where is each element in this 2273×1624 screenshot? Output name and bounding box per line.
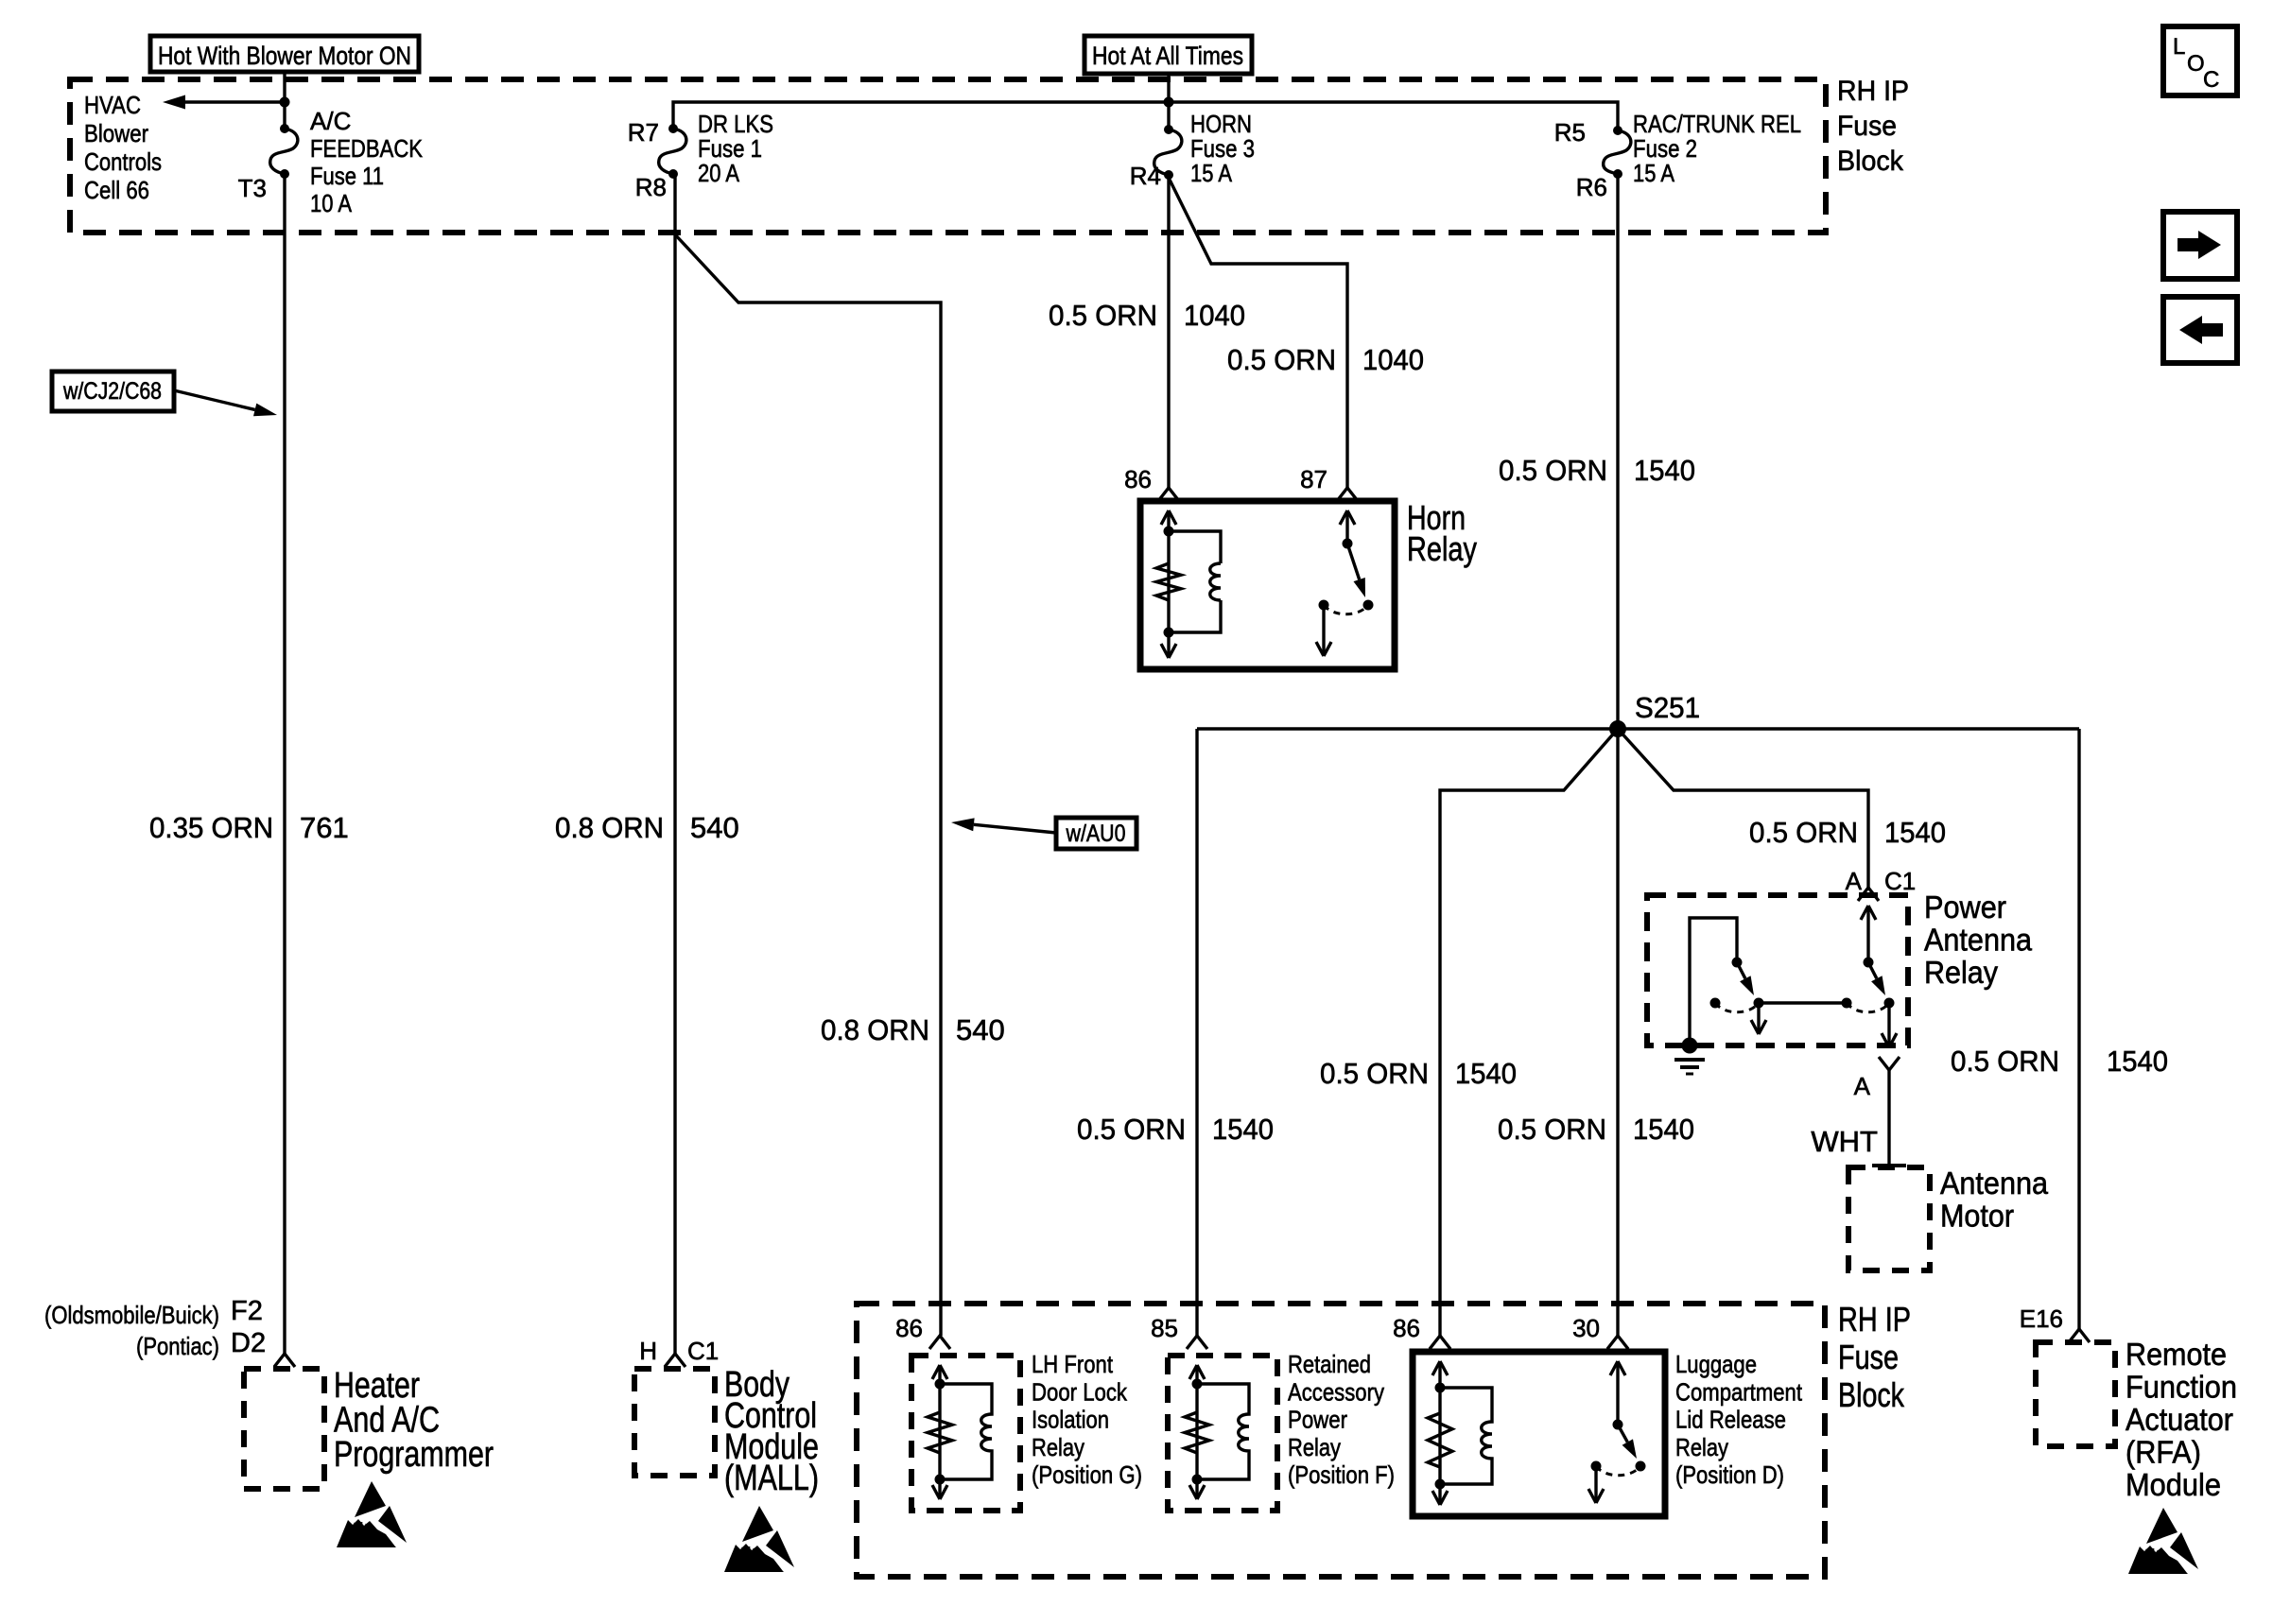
wire 0.5 ORN 1040 (to horn relay 86) — [1167, 178, 1170, 488]
svg-text:Blower: Blower — [84, 119, 148, 147]
svg-text:1040: 1040 — [1362, 343, 1424, 376]
svg-text:Power: Power — [1288, 1406, 1347, 1434]
connector chevron 30 (luggage relay) — [1607, 1336, 1628, 1349]
svg-text:Fuse: Fuse — [1838, 1338, 1899, 1376]
wire WHT (antenna motor) — [1887, 1070, 1890, 1164]
svg-text:D2: D2 — [231, 1328, 266, 1358]
svg-text:540: 540 — [690, 811, 739, 844]
svg-text:86: 86 — [895, 1314, 923, 1342]
connector chevron 86 (luggage relay) — [1430, 1336, 1450, 1349]
fuse F1 DR LKS (R7/R8) — [668, 124, 678, 133]
svg-text:O: O — [2187, 51, 2205, 77]
svg-text:A: A — [1854, 1072, 1871, 1100]
svg-text:20 A: 20 A — [698, 159, 740, 187]
connector chevron 86 (door lock relay) — [929, 1336, 950, 1349]
svg-text:Programmer: Programmer — [334, 1435, 494, 1475]
svg-text:Fuse 11: Fuse 11 — [310, 162, 384, 190]
svg-text:1540: 1540 — [1633, 1113, 1694, 1146]
node S251 junction dot — [1609, 720, 1626, 737]
wire 0.5 ORN 1540 (S251 to luggage relay 86) — [1440, 729, 1618, 1336]
connector chevron H/C1 — [665, 1354, 685, 1367]
arrow to HVAC Blower Controls — [185, 100, 285, 103]
svg-text:Lid Release: Lid Release — [1675, 1406, 1786, 1434]
svg-text:(RFA): (RFA) — [2126, 1435, 2201, 1470]
luggage relay switch leg (30) — [1616, 1361, 1619, 1425]
RH IP fuse block (bottom) dashed outline — [857, 1304, 1825, 1577]
wire 0.35 ORN 761 (to heater programmer) — [283, 174, 286, 1354]
reference box w/CJ2/C68 — [52, 371, 174, 411]
svg-text:Relay: Relay — [1924, 955, 1998, 990]
reference box w/AU0 — [1056, 818, 1136, 849]
junction dot on top bus — [1164, 97, 1174, 108]
svg-text:Remote: Remote — [2126, 1337, 2227, 1372]
heater and A/C programmer dashed box — [244, 1369, 324, 1489]
horn relay switch leg (87) — [1345, 510, 1348, 544]
connector chevron 85 (retained accessory relay) — [1187, 1336, 1207, 1349]
wire branch w/AU0 (0.8 ORN 540 to door lock relay) — [673, 233, 941, 1336]
svg-text:Antenna: Antenna — [1940, 1166, 2049, 1201]
wire branch 0.5 ORN 1040 (to horn relay 87) — [1169, 178, 1347, 488]
fuse F3 HORN (R4) — [1164, 125, 1173, 134]
label box: Hot At All Times — [1084, 36, 1252, 74]
svg-text:FEEDBACK: FEEDBACK — [310, 134, 424, 163]
svg-text:0.5 ORN: 0.5 ORN — [1049, 299, 1157, 332]
svg-text:A/C: A/C — [310, 107, 351, 135]
svg-text:86: 86 — [1124, 465, 1152, 493]
svg-text:Block: Block — [1837, 146, 1904, 177]
wire 0.5 ORN 1540 (to RFA module E16) — [2077, 729, 2080, 1329]
svg-text:Fuse: Fuse — [1837, 111, 1897, 142]
svg-text:C1: C1 — [687, 1337, 719, 1365]
svg-text:0.35 ORN: 0.35 ORN — [149, 811, 273, 844]
svg-text:R6: R6 — [1576, 173, 1607, 201]
svg-text:Hot With Blower Motor ON: Hot With Blower Motor ON — [158, 42, 411, 70]
svg-text:RH IP: RH IP — [1838, 1300, 1911, 1339]
svg-text:0.5 ORN: 0.5 ORN — [1749, 816, 1858, 849]
svg-text:Accessory: Accessory — [1288, 1377, 1384, 1406]
svg-text:(Position G): (Position G) — [1032, 1460, 1142, 1489]
svg-text:(Oldsmobile/Buick): (Oldsmobile/Buick) — [44, 1301, 219, 1329]
svg-text:C1: C1 — [1884, 867, 1916, 895]
retained accessory power relay dashed box — [1168, 1356, 1277, 1511]
svg-text:A: A — [1846, 867, 1863, 895]
wire: feed from Hot With Blower Motor ON — [283, 72, 286, 129]
svg-text:R5: R5 — [1554, 118, 1586, 147]
svg-text:Isolation: Isolation — [1032, 1406, 1109, 1434]
svg-text:Relay: Relay — [1675, 1433, 1728, 1461]
svg-text:L: L — [2173, 34, 2185, 60]
svg-text:0.5 ORN: 0.5 ORN — [1951, 1045, 2059, 1078]
svg-text:w/AU0: w/AU0 — [1066, 821, 1126, 847]
LOC symbol box — [2163, 26, 2237, 95]
power antenna relay dashed box — [1647, 895, 1908, 1045]
svg-text:Relay: Relay — [1407, 529, 1477, 568]
svg-text:85: 85 — [1151, 1314, 1178, 1342]
svg-text:30: 30 — [1572, 1314, 1600, 1342]
svg-text:R7: R7 — [628, 118, 659, 147]
svg-text:RH IP: RH IP — [1837, 76, 1909, 107]
svg-text:Actuator: Actuator — [2126, 1402, 2233, 1437]
svg-text:1540: 1540 — [2107, 1045, 2168, 1078]
antenna motor terminal bar — [1872, 1164, 1906, 1167]
svg-text:1040: 1040 — [1184, 299, 1245, 332]
svg-text:0.8 ORN: 0.8 ORN — [555, 811, 664, 844]
svg-text:0.5 ORN: 0.5 ORN — [1498, 1113, 1606, 1146]
door lock relay coil — [938, 1365, 941, 1479]
svg-text:Motor: Motor — [1940, 1199, 2014, 1234]
svg-text:86: 86 — [1393, 1314, 1420, 1342]
svg-text:Door Lock: Door Lock — [1032, 1377, 1128, 1406]
svg-text:(MALL): (MALL) — [724, 1459, 819, 1498]
horn relay coil leg (86) — [1167, 510, 1170, 632]
ESD warning symbol (RFA module) — [2128, 1508, 2198, 1574]
wire 0.8 ORN 540 (to BCM) — [673, 174, 676, 1354]
svg-text:15 A: 15 A — [1190, 159, 1233, 187]
ground (power antenna relay) — [1682, 1038, 1698, 1054]
svg-text:0.5 ORN: 0.5 ORN — [1320, 1057, 1429, 1090]
RH IP fuse block (top) dashed outline — [70, 79, 1826, 233]
arrow from w/AU0 to wire — [974, 824, 1056, 833]
horn relay box — [1140, 501, 1395, 669]
svg-text:HVAC: HVAC — [84, 91, 141, 119]
svg-text:87: 87 — [1300, 465, 1327, 493]
svg-text:10 A: 10 A — [310, 189, 353, 217]
svg-text:(Pontiac): (Pontiac) — [136, 1332, 219, 1360]
wire 0.5 ORN 1540 (fuse 2 to S251) — [1616, 174, 1619, 729]
svg-text:Luggage: Luggage — [1675, 1350, 1757, 1378]
svg-text:LH Front: LH Front — [1032, 1350, 1114, 1378]
power antenna relay output to antenna motor (arrow through box edge) — [1887, 1003, 1890, 1044]
svg-text:761: 761 — [300, 811, 349, 844]
svg-text:Module: Module — [2126, 1467, 2221, 1502]
svg-text:C: C — [2203, 67, 2219, 93]
svg-text:Hot At All Times: Hot At All Times — [1092, 42, 1243, 70]
svg-text:Cell 66: Cell 66 — [84, 176, 149, 204]
svg-text:F2: F2 — [231, 1296, 263, 1326]
fuse F11 A/C FEEDBACK (T3) — [280, 124, 289, 133]
connector chevron A (antenna motor side) — [1879, 1057, 1900, 1070]
svg-text:1540: 1540 — [1884, 816, 1946, 849]
svg-text:Controls: Controls — [84, 147, 162, 176]
connector chevron A/C1 — [1858, 888, 1879, 901]
svg-text:Retained: Retained — [1288, 1350, 1371, 1378]
luggage compartment lid release relay box — [1413, 1352, 1665, 1516]
svg-text:Relay: Relay — [1288, 1433, 1341, 1461]
svg-text:Function: Function — [2126, 1370, 2237, 1405]
page arrow left box — [2163, 297, 2237, 363]
power antenna relay internals — [1866, 906, 1869, 962]
svg-text:(Position D): (Position D) — [1675, 1460, 1784, 1489]
svg-text:R8: R8 — [635, 173, 667, 201]
svg-text:Power: Power — [1924, 890, 2006, 924]
connector chevron F2/D2 — [274, 1354, 295, 1367]
wire 0.5 ORN 1540 (to retained accessory relay 85) — [1195, 729, 1198, 1336]
svg-text:w/CJ2/C68: w/CJ2/C68 — [62, 378, 162, 405]
svg-text:Block: Block — [1838, 1375, 1905, 1414]
svg-text:WHT: WHT — [1811, 1125, 1878, 1158]
svg-text:Compartment: Compartment — [1675, 1377, 1803, 1406]
svg-text:15 A: 15 A — [1633, 159, 1675, 187]
retained accessory relay coil — [1195, 1365, 1198, 1479]
connector chevron E16 — [2069, 1329, 2090, 1342]
svg-text:0.5 ORN: 0.5 ORN — [1499, 454, 1607, 487]
connector chevron 87 (horn relay) — [1337, 488, 1358, 501]
arrow from w/CJ2/C68 to wire — [174, 390, 255, 409]
svg-text:1540: 1540 — [1455, 1057, 1517, 1090]
svg-text:(Position F): (Position F) — [1288, 1460, 1395, 1489]
junction dot at HVAC branch — [280, 97, 290, 108]
body control module dashed box — [634, 1369, 715, 1476]
svg-text:0.8 ORN: 0.8 ORN — [821, 1013, 929, 1046]
page arrow right box — [2163, 212, 2237, 279]
svg-text:E16: E16 — [2020, 1304, 2063, 1333]
antenna motor dashed box — [1848, 1167, 1930, 1270]
wire: drop from Hot At All Times box — [1167, 72, 1170, 130]
ESD warning symbol (heater programmer) — [337, 1481, 407, 1547]
svg-text:Antenna: Antenna — [1924, 923, 2033, 958]
ESD warning symbol (BCM) — [724, 1506, 794, 1572]
connector chevron 86 (horn relay) — [1158, 488, 1179, 501]
svg-text:Relay: Relay — [1032, 1433, 1084, 1461]
luggage relay coil leg (86) — [1438, 1361, 1441, 1484]
svg-text:H: H — [639, 1337, 657, 1365]
wire 0.5 ORN 1540 (S251 to luggage relay 30) — [1616, 729, 1619, 1336]
top bus wire (Hot At All Times to fuses) — [673, 102, 1618, 130]
bus wire at S251 (left to retained relay, right to E16) — [1197, 727, 2079, 730]
RFA module dashed box — [2036, 1342, 2115, 1446]
LH front door lock isolation relay dashed box — [911, 1356, 1020, 1511]
svg-text:T3: T3 — [238, 174, 267, 202]
wire 0.5 ORN 1540 (S251 to power antenna relay) — [1618, 729, 1868, 888]
svg-text:540: 540 — [956, 1013, 1005, 1046]
svg-text:1540: 1540 — [1212, 1113, 1274, 1146]
svg-text:0.5 ORN: 0.5 ORN — [1077, 1113, 1186, 1146]
fuse F2 RAC/TRUNK REL (R5/R6) — [1613, 126, 1622, 135]
svg-text:S251: S251 — [1635, 691, 1700, 724]
svg-text:R4: R4 — [1130, 162, 1161, 190]
svg-text:1540: 1540 — [1634, 454, 1695, 487]
label box: Hot With Blower Motor ON — [150, 36, 419, 72]
svg-text:0.5 ORN: 0.5 ORN — [1227, 343, 1336, 376]
